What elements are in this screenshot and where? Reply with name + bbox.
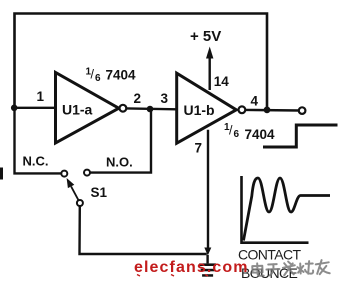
- watermark 电子发烧友 (approximated gray strokes): [252, 260, 330, 277]
- output terminal: [299, 107, 306, 114]
- switch S1 pole: [77, 200, 83, 206]
- svg-text:/: /: [229, 124, 233, 138]
- wire N.C. branch: [15, 108, 62, 173]
- svg-text:U1-b: U1-b: [184, 102, 215, 118]
- node 3 junction: [147, 106, 154, 113]
- watermark accents: [137, 275, 208, 277]
- arrowhead +5V: [206, 47, 213, 59]
- wire S1 pole to ground rail: [80, 206, 207, 254]
- wire pin 7 to ground: [207, 130, 209, 249]
- svg-text:1: 1: [37, 89, 45, 104]
- svg-text:N.C.: N.C.: [23, 154, 49, 169]
- contact N.C.: [61, 171, 67, 177]
- switch S1 arm: [71, 186, 79, 200]
- node output junction: [264, 107, 271, 114]
- output bubble U1-b: [239, 106, 246, 113]
- ground: [199, 255, 216, 277]
- wire pin 14 to +5V: [208, 58, 210, 91]
- scan artifact left edge: [0, 168, 3, 180]
- svg-text:7404: 7404: [106, 68, 137, 83]
- label 1/6 7404 (U1-b): [224, 122, 275, 142]
- label 1/6 7404 (U1-a): [86, 67, 137, 85]
- svg-text:7404: 7404: [245, 127, 276, 142]
- svg-text:14: 14: [214, 74, 230, 89]
- contact bounce graph axes: [242, 176, 309, 243]
- contact bounce waveform: [244, 178, 331, 241]
- wire U1-b output to terminal: [246, 109, 299, 112]
- svg-text:elecfans.com: elecfans.com: [134, 259, 249, 276]
- svg-text:U1-a: U1-a: [62, 102, 93, 118]
- svg-text:N.O.: N.O.: [106, 155, 133, 170]
- svg-text:/: /: [91, 68, 95, 82]
- svg-text:S1: S1: [91, 185, 108, 200]
- svg-text:3: 3: [161, 91, 169, 106]
- clean output step waveform symbol: [263, 125, 338, 147]
- inverter U1-a: [56, 73, 119, 144]
- svg-text:6: 6: [234, 129, 240, 140]
- wire U1-a output to U1-b input: [126, 107, 176, 110]
- svg-text:7: 7: [195, 141, 203, 156]
- switch S1 arm arrowhead: [67, 178, 75, 188]
- arrowhead pin 7 into ground node: [204, 248, 211, 256]
- svg-text:+ 5V: + 5V: [190, 28, 221, 45]
- wire N.O. branch to node 3: [90, 110, 151, 173]
- output bubble U1-a: [120, 105, 127, 112]
- svg-text:4: 4: [251, 94, 259, 109]
- svg-text:2: 2: [134, 91, 142, 106]
- wire input stub to U1-a pin 1: [15, 107, 57, 109]
- wire feedback loop from U1-b output to U1-a input: [15, 14, 268, 111]
- svg-text:6: 6: [95, 73, 101, 84]
- inverter U1-b: [177, 73, 237, 143]
- node input junction: [11, 105, 18, 112]
- contact N.O.: [84, 170, 90, 176]
